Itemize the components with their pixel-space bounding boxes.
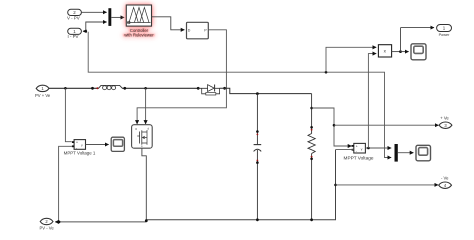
wire capacitor top: [256, 94, 258, 145]
wire controller to PWM: [152, 17, 185, 30]
wire capacitor bottom: [256, 150, 258, 220]
wire measure tap: [312, 108, 352, 146]
wire mosfet source to ground bus: [142, 148, 146, 220]
svg-text:MPPT Voltage 1: MPPT Voltage 1: [64, 151, 96, 156]
svg-text:+ Ve: + Ve: [440, 116, 449, 121]
wire voltmeter minus down: [336, 149, 354, 151]
wire I-PV branch up to mux: [86, 22, 107, 31]
wire resistor branch: [311, 94, 313, 220]
svg-text:+: +: [76, 141, 78, 145]
wire top bus right of coil: [122, 87, 198, 89]
capacitor C1: [254, 145, 262, 152]
svg-text:I - PV: I - PV: [68, 34, 79, 39]
PWM block D P: [187, 22, 209, 39]
op fuzzy controller U1 glow: [122, 5, 155, 38]
fuzzy controller block: [124, 5, 154, 38]
node capacitor top terminal: [256, 130, 259, 133]
scope Scope3: [411, 44, 426, 60]
node power branch: [399, 50, 402, 53]
wire top bus: [49, 87, 99, 89]
wire bottom bus left: [59, 221, 146, 223]
wire junction to I-PV: [83, 30, 86, 32]
node capacitor bottom terminal: [256, 161, 259, 164]
node bus joint: [145, 219, 148, 222]
wire current to product: [326, 47, 376, 72]
wire to +Ve port: [334, 124, 439, 126]
wire diode jog to load bus: [220, 88, 312, 93]
node resistor top bus: [310, 107, 313, 110]
outport Power: [437, 25, 452, 38]
node minus branch: [334, 184, 337, 187]
scope Scope2: [416, 145, 431, 161]
wire V-PV to mux: [81, 11, 106, 13]
node diode out: [223, 87, 226, 90]
node plus tap: [333, 124, 336, 127]
wire bus to voltmeter plus: [65, 88, 71, 141]
wire mux to controller: [111, 16, 124, 18]
wire voltmeter out to scope: [86, 144, 109, 146]
node I-PV junction: [85, 30, 88, 33]
wire voltmeter out: [365, 147, 391, 149]
mux Mux2: [395, 144, 398, 162]
wire drain: [145, 88, 147, 124]
MOSFET Q1: [132, 125, 153, 149]
port + Ve: [439, 116, 452, 129]
svg-text:MPPT Voltage: MPPT Voltage: [344, 155, 374, 160]
wire bottom bus right: [146, 150, 335, 220]
svg-text:with Ruleviewer: with Ruleviewer: [124, 33, 154, 38]
node resistor bottom terminal: [310, 158, 313, 161]
svg-text:V - PV: V - PV: [67, 15, 80, 20]
port PV - Ve: [39, 218, 59, 230]
node capacitor branch: [256, 92, 259, 95]
voltmeter U2 MPPT Voltage 1: [64, 140, 96, 156]
svg-text:- Ve: - Ve: [441, 176, 449, 181]
svg-text:Power: Power: [439, 33, 450, 37]
node drain branch: [144, 87, 147, 90]
wire I-PV feedback long line: [88, 32, 391, 158]
node diode in: [197, 87, 200, 90]
node resistor ground joint: [310, 218, 313, 221]
inport V - PV: [67, 9, 81, 20]
wire to power port: [400, 28, 402, 52]
wire to scope3: [401, 51, 409, 53]
node resistor top terminal: [310, 126, 313, 129]
scope Scope1: [111, 137, 124, 151]
wire product out: [392, 51, 401, 53]
product X1: [378, 45, 391, 57]
resistor R1: [308, 134, 315, 154]
wire PWM P to mosfet gate: [137, 30, 226, 124]
node PV+ measure tap: [64, 87, 67, 90]
svg-text:PV + Ve: PV + Ve: [35, 93, 51, 98]
node inductor right terminal: [123, 87, 126, 90]
node capacitor ground joint: [256, 218, 259, 221]
wire to -Ve port: [336, 184, 439, 186]
svg-text:PV - Ve: PV - Ve: [39, 225, 54, 230]
node PV- terminal joint: [58, 221, 61, 224]
node inductor left terminal: [91, 87, 94, 90]
mux Mux1: [108, 8, 111, 26]
port PV + Ve: [35, 85, 51, 98]
inductor L1: [96, 85, 122, 89]
wire voltage to product: [368, 54, 376, 148]
diode D1: [198, 85, 219, 96]
node out up power: [367, 147, 370, 150]
svg-text:D: D: [188, 28, 191, 32]
port - Ve: [439, 176, 452, 189]
node current-feedback tap: [325, 71, 328, 74]
wire voltmeter minus to ground: [59, 146, 72, 222]
svg-text:+: +: [356, 144, 358, 148]
voltmeter U3 MPPT Voltage: [344, 143, 374, 160]
outport I - PV: [68, 28, 82, 39]
wire mux2 to scope: [398, 152, 414, 154]
